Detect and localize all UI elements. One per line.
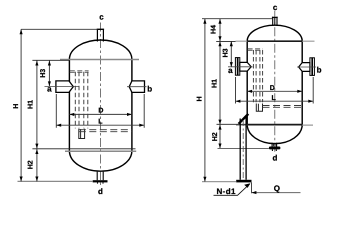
top tangent extension (right view) xyxy=(216,40,235,42)
base extension line (left view) xyxy=(18,180,93,182)
svg-text:H: H xyxy=(196,96,203,101)
L extension lines (right view) xyxy=(236,77,314,104)
internal bottom box (left view) xyxy=(79,129,85,139)
svg-text:H2: H2 xyxy=(212,132,219,141)
svg-text:H2: H2 xyxy=(28,160,35,169)
svg-text:a: a xyxy=(228,66,233,75)
dimension H3 (left view) xyxy=(48,61,50,87)
bottom tangent extension line (left view) xyxy=(32,148,135,150)
shell right wall (right view) xyxy=(301,41,303,124)
internal bottom box (right view) xyxy=(256,104,262,112)
internal bottom pipe (right view, hidden) xyxy=(263,106,303,108)
nozzle d flange (left view) xyxy=(93,180,108,182)
top tangent line (right view) xyxy=(247,40,302,42)
dimension L (right view) xyxy=(236,100,314,102)
nozzle b pipe (right view) xyxy=(299,63,310,72)
dimension H1/H2 line (left view) xyxy=(36,61,38,182)
svg-text:H: H xyxy=(13,104,20,109)
nozzle a pipe (right view) xyxy=(240,62,251,71)
svg-text:b: b xyxy=(317,66,322,75)
nozzle b flange (right view) xyxy=(310,58,315,76)
svg-text:d: d xyxy=(273,153,278,162)
dimension L (left view) xyxy=(56,124,144,126)
dimension H (left view) xyxy=(20,29,22,181)
svg-text:a: a xyxy=(47,85,52,94)
svg-text:d: d xyxy=(98,187,103,196)
L extension lines (left view) xyxy=(56,94,144,128)
top head (right view) xyxy=(247,25,302,41)
top tangent line (left view, gray) xyxy=(60,59,139,61)
internal top pipe (left view) xyxy=(70,71,89,73)
svg-text:c: c xyxy=(99,12,104,21)
nozzle a flange (right view) xyxy=(235,58,239,76)
nozzle c (left view) xyxy=(97,29,104,41)
svg-text:b: b xyxy=(147,84,152,93)
svg-text:H3: H3 xyxy=(40,69,47,78)
internal top pipe (right view) xyxy=(248,49,263,50)
bottom tangent extension (right view) xyxy=(217,123,248,125)
dimension D (right view) xyxy=(247,90,302,92)
bottom head (left view) xyxy=(69,151,131,171)
dimension D (left view) xyxy=(69,113,131,115)
svg-text:L: L xyxy=(271,95,276,102)
dimension H (right view) xyxy=(204,19,206,182)
nozzle d stubs (right view) xyxy=(272,149,276,151)
internal dip pipes (left view, hidden lines) xyxy=(75,72,88,129)
nozzle b centerline xyxy=(127,86,147,88)
nozzle c (right view) xyxy=(272,17,278,26)
ground line (right view) xyxy=(202,181,236,183)
H top extension line (left view) xyxy=(21,28,97,30)
nozzle a centerline (right view) xyxy=(228,66,253,68)
dimension Q (right view) xyxy=(251,182,253,193)
svg-text:D: D xyxy=(270,85,275,92)
svg-text:Q: Q xyxy=(274,184,280,193)
nozzle d flange (right view) xyxy=(269,147,281,150)
dimension H3 (right view) xyxy=(230,41,232,67)
bottom tangent line (right view) xyxy=(247,124,302,126)
nozzle b centerline (right view) xyxy=(297,66,316,68)
svg-text:H3: H3 xyxy=(223,48,230,57)
shell left wall (left view) xyxy=(68,59,70,150)
svg-text:c: c xyxy=(273,3,278,12)
bottom tangent line (left view, gray) xyxy=(65,150,136,152)
bottom head (right view) xyxy=(247,125,302,144)
leg base plate (right view) xyxy=(236,180,251,183)
svg-text:N-d1: N-d1 xyxy=(217,187,237,196)
nozzle d (left view) xyxy=(97,172,103,181)
nozzle d (right view) xyxy=(272,143,277,147)
svg-text:H4: H4 xyxy=(210,25,217,34)
shell left wall (right view) xyxy=(246,41,248,124)
nozzle d bottom extension line (right view) xyxy=(218,147,269,149)
vessel centerline (right view) xyxy=(274,11,276,153)
dimension H4/H1/H2 line (right view) xyxy=(219,19,221,149)
nozzle b (left view) xyxy=(129,81,144,93)
support leg (right view) xyxy=(240,116,246,180)
top tangent extension line (left view) xyxy=(32,59,69,61)
vessel centerline (left view) xyxy=(100,23,102,186)
nozzle d flange stubs xyxy=(98,182,104,183)
leg top diagonal (right view) xyxy=(239,114,249,124)
nozzle a (left view) xyxy=(56,81,73,93)
shell right wall (left view) xyxy=(131,59,133,150)
svg-text:H1: H1 xyxy=(212,79,219,88)
svg-text:H1: H1 xyxy=(27,100,34,109)
svg-text:L: L xyxy=(98,118,103,125)
nozzle a centerline xyxy=(45,86,80,88)
internal dip pipes (right view, hidden lines) xyxy=(253,50,262,102)
leg centerline xyxy=(242,120,244,180)
top head (left view) xyxy=(69,40,131,59)
H top extension line (right view) xyxy=(202,18,273,20)
internal bottom pipe (left view, hidden) xyxy=(79,130,132,132)
svg-text:D: D xyxy=(98,108,103,115)
